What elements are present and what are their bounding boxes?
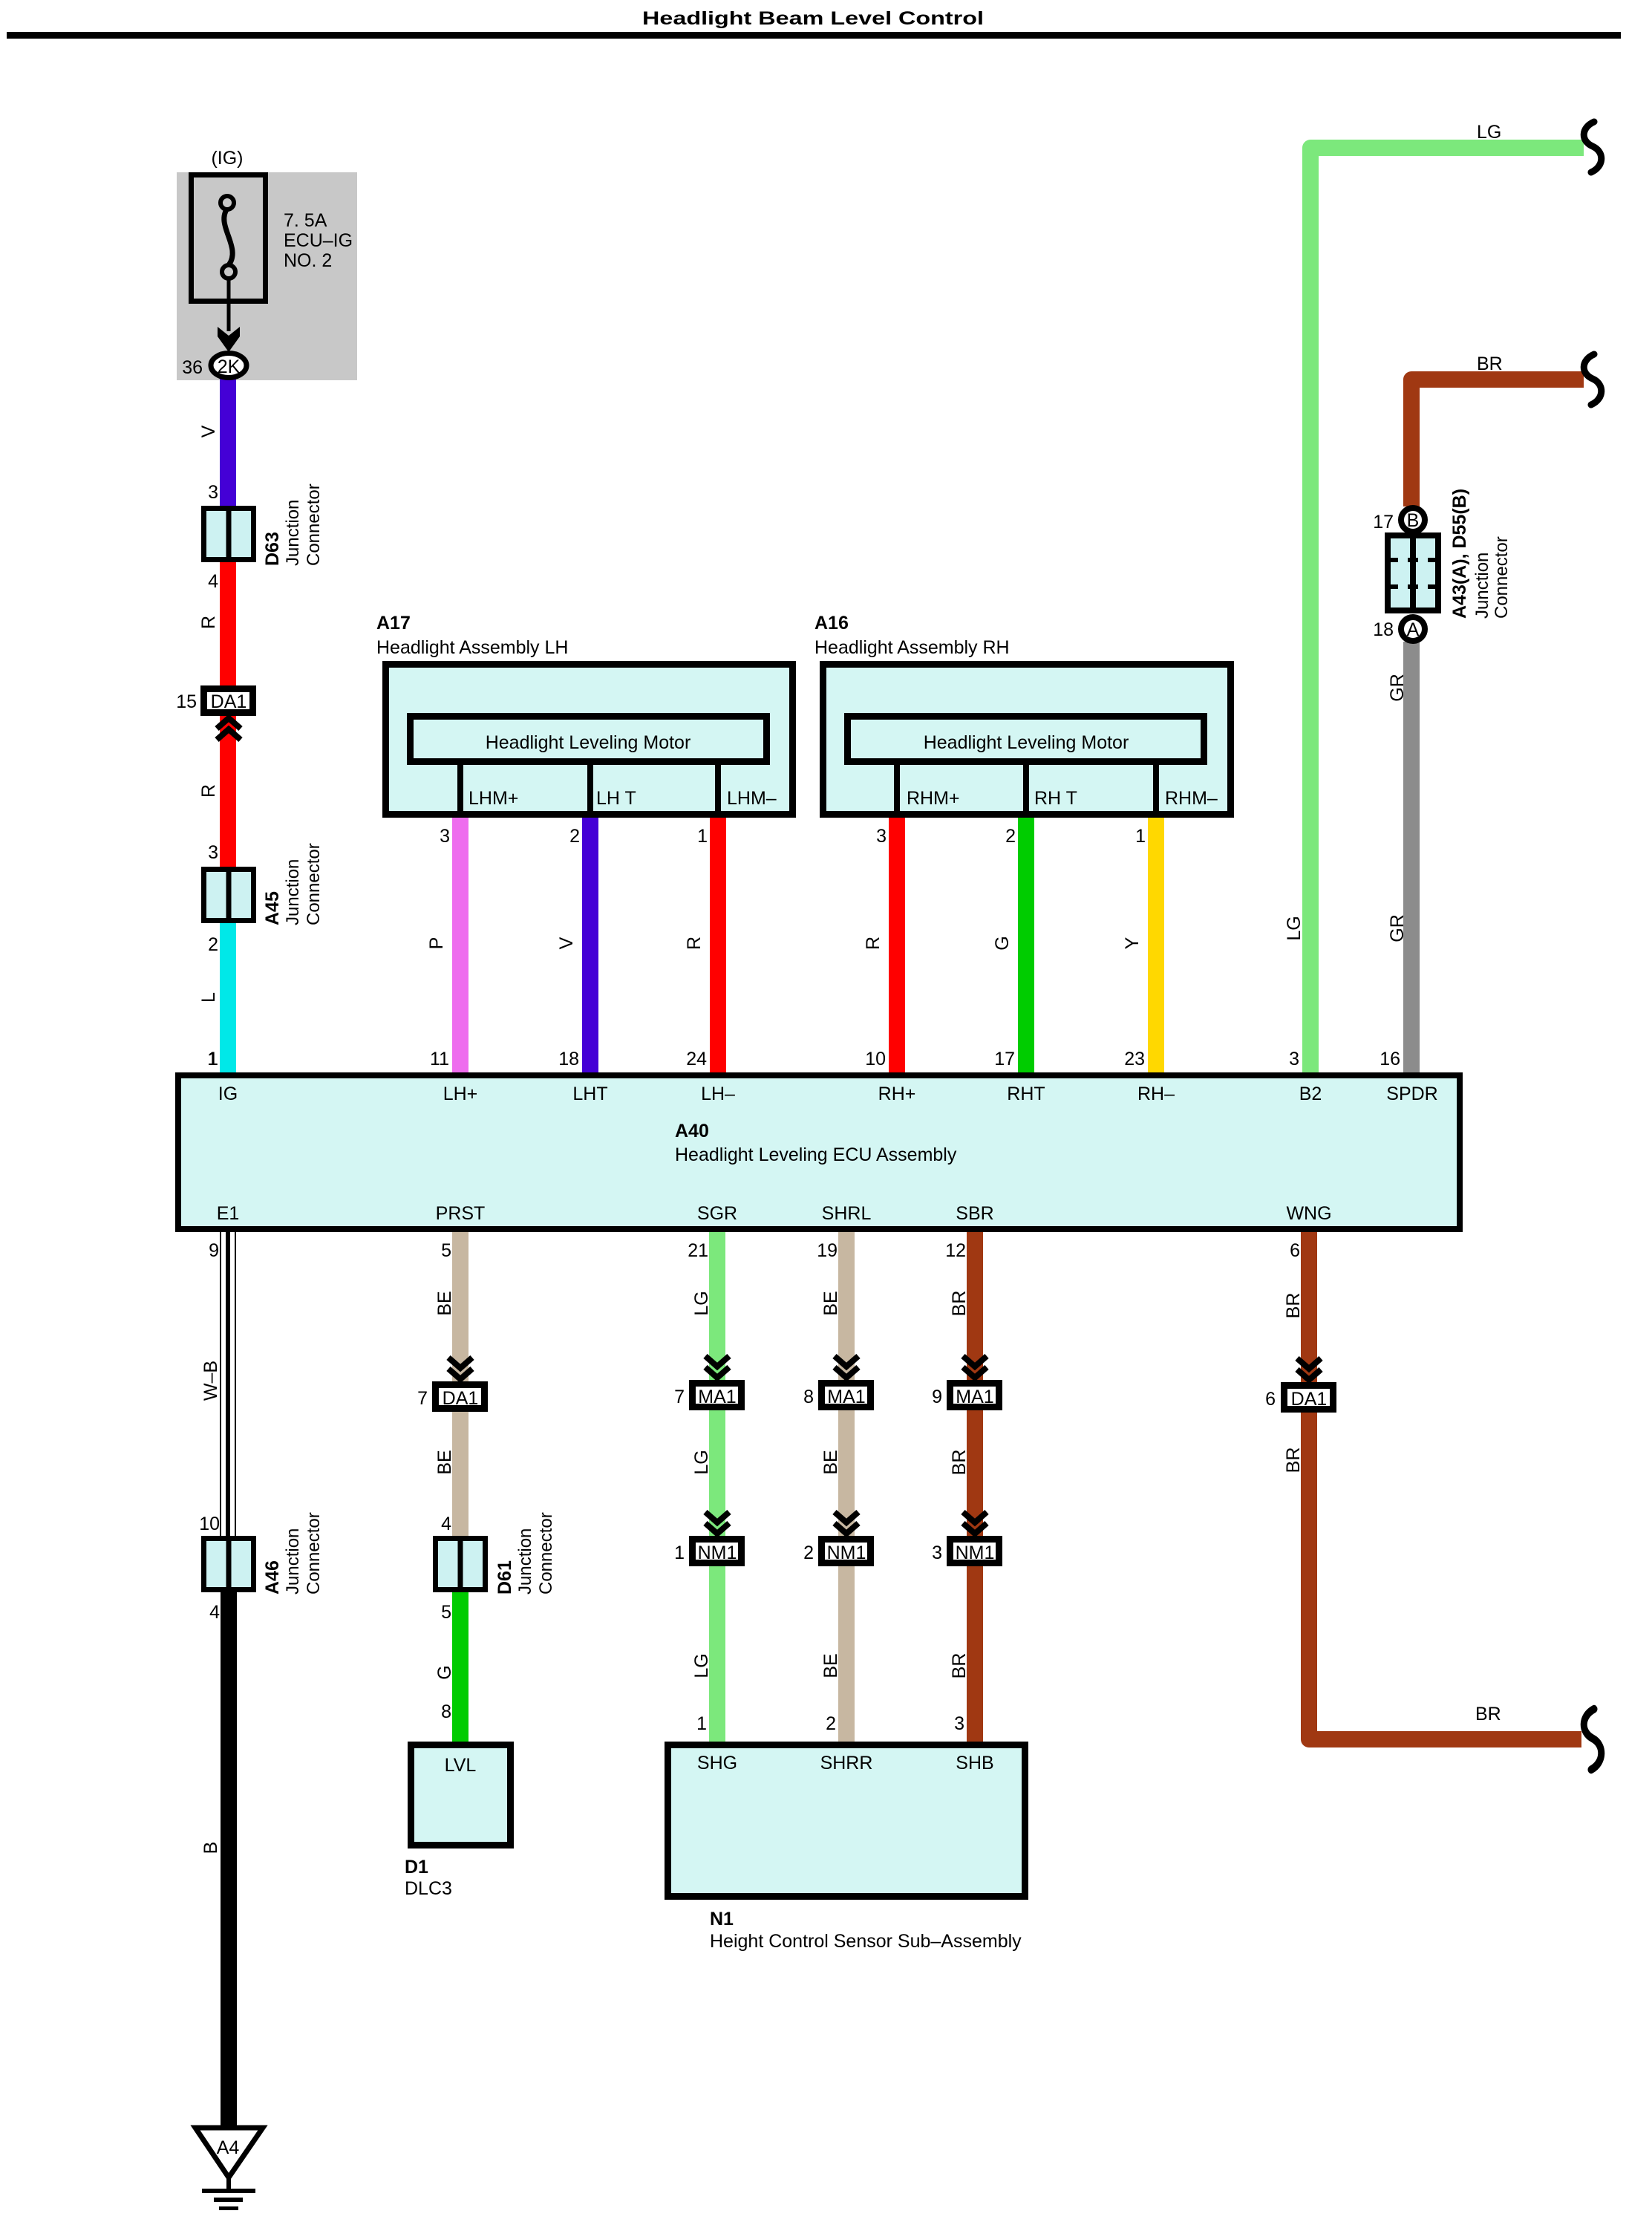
svg-text:1: 1 xyxy=(696,1713,707,1734)
svg-text:R: R xyxy=(198,616,219,629)
svg-text:DA1: DA1 xyxy=(1291,1389,1328,1410)
svg-text:A40: A40 xyxy=(675,1121,709,1141)
svg-text:3: 3 xyxy=(440,826,450,847)
svg-text:Junction: Junction xyxy=(1472,553,1492,619)
svg-text:LH+: LH+ xyxy=(443,1084,478,1104)
svg-text:8: 8 xyxy=(441,1701,451,1722)
svg-text:G: G xyxy=(992,936,1013,950)
svg-text:DA1: DA1 xyxy=(443,1388,479,1409)
svg-text:6: 6 xyxy=(1265,1389,1276,1410)
svg-text:Connector: Connector xyxy=(304,483,324,566)
svg-text:D63: D63 xyxy=(262,532,283,566)
svg-text:MA1: MA1 xyxy=(827,1387,865,1407)
svg-text:2: 2 xyxy=(208,934,218,955)
svg-text:LH–: LH– xyxy=(701,1084,735,1104)
svg-text:BR: BR xyxy=(1283,1447,1304,1473)
svg-text:BE: BE xyxy=(434,1291,455,1315)
svg-text:1: 1 xyxy=(697,826,708,847)
svg-text:SHB: SHB xyxy=(956,1753,993,1773)
svg-text:Headlight Leveling Motor: Headlight Leveling Motor xyxy=(486,732,691,753)
svg-text:8: 8 xyxy=(803,1387,814,1407)
svg-text:2: 2 xyxy=(803,1543,814,1563)
svg-text:Headlight Beam Level Control: Headlight Beam Level Control xyxy=(642,8,984,29)
svg-text:G: G xyxy=(434,1665,455,1679)
svg-text:16: 16 xyxy=(1380,1049,1400,1069)
svg-text:10: 10 xyxy=(199,1514,220,1534)
svg-text:LHT: LHT xyxy=(572,1084,607,1104)
svg-text:SBR: SBR xyxy=(956,1203,993,1224)
svg-text:A43(A), D55(B): A43(A), D55(B) xyxy=(1449,489,1470,619)
svg-text:4: 4 xyxy=(208,571,218,592)
svg-text:BR: BR xyxy=(1477,354,1503,374)
svg-text:Headlight Leveling Motor: Headlight Leveling Motor xyxy=(924,732,1129,753)
svg-text:A16: A16 xyxy=(814,613,849,633)
svg-text:9: 9 xyxy=(209,1240,219,1261)
svg-text:19: 19 xyxy=(817,1240,838,1261)
svg-text:BE: BE xyxy=(820,1450,841,1474)
svg-text:DLC3: DLC3 xyxy=(405,1878,452,1899)
svg-text:21: 21 xyxy=(688,1240,708,1261)
svg-text:N1: N1 xyxy=(710,1909,734,1929)
svg-text:24: 24 xyxy=(686,1049,707,1069)
svg-text:SHG: SHG xyxy=(697,1753,737,1773)
svg-text:4: 4 xyxy=(209,1602,220,1623)
svg-text:R: R xyxy=(684,937,705,950)
svg-text:7: 7 xyxy=(674,1387,685,1407)
svg-text:A46: A46 xyxy=(262,1560,283,1595)
svg-text:E1: E1 xyxy=(217,1203,240,1224)
svg-text:ECU–IG: ECU–IG xyxy=(284,230,353,251)
svg-text:1: 1 xyxy=(207,1049,218,1069)
svg-text:R: R xyxy=(863,937,884,950)
svg-text:BR: BR xyxy=(949,1291,970,1317)
svg-text:W–B: W–B xyxy=(200,1361,221,1401)
svg-text:LHM–: LHM– xyxy=(727,788,777,809)
svg-text:12: 12 xyxy=(945,1240,966,1261)
svg-text:NM1: NM1 xyxy=(827,1543,866,1563)
svg-text:3: 3 xyxy=(932,1543,942,1563)
svg-text:A4: A4 xyxy=(217,2137,240,2158)
svg-text:2: 2 xyxy=(826,1713,836,1734)
svg-text:LG: LG xyxy=(1477,122,1501,143)
svg-text:D61: D61 xyxy=(494,1560,515,1595)
svg-text:LVL: LVL xyxy=(445,1755,477,1776)
svg-text:V: V xyxy=(556,937,577,949)
svg-text:17: 17 xyxy=(1373,512,1394,532)
svg-text:Junction: Junction xyxy=(283,1528,303,1595)
svg-text:15: 15 xyxy=(176,691,197,712)
svg-text:3: 3 xyxy=(954,1713,964,1734)
svg-text:B: B xyxy=(1407,510,1420,531)
svg-text:11: 11 xyxy=(430,1049,449,1069)
svg-text:Connector: Connector xyxy=(304,843,324,925)
svg-text:3: 3 xyxy=(208,842,218,863)
svg-text:4: 4 xyxy=(441,1514,451,1534)
svg-text:Headlight Assembly LH: Headlight Assembly LH xyxy=(376,637,568,658)
svg-text:RHM–: RHM– xyxy=(1165,788,1218,809)
svg-text:NO. 2: NO. 2 xyxy=(284,250,332,271)
svg-text:9: 9 xyxy=(932,1387,942,1407)
svg-text:BR: BR xyxy=(949,1450,970,1476)
svg-text:NM1: NM1 xyxy=(698,1543,737,1563)
svg-text:BR: BR xyxy=(1475,1704,1501,1724)
svg-text:R: R xyxy=(198,784,219,798)
svg-text:SHRR: SHRR xyxy=(820,1753,873,1773)
svg-text:SPDR: SPDR xyxy=(1386,1084,1437,1104)
svg-text:Connector: Connector xyxy=(536,1512,556,1595)
svg-text:NM1: NM1 xyxy=(956,1543,995,1563)
svg-text:Connector: Connector xyxy=(1492,536,1512,619)
svg-text:5: 5 xyxy=(441,1602,451,1623)
svg-text:2: 2 xyxy=(1005,826,1016,847)
svg-text:Headlight Leveling ECU Assembl: Headlight Leveling ECU Assembly xyxy=(675,1144,957,1165)
svg-text:Y: Y xyxy=(1122,937,1143,949)
svg-text:LHM+: LHM+ xyxy=(468,788,518,809)
svg-text:SHRL: SHRL xyxy=(822,1203,872,1224)
svg-text:1: 1 xyxy=(674,1543,685,1563)
svg-text:Height Control Sensor Sub–Asse: Height Control Sensor Sub–Assembly xyxy=(710,1931,1022,1952)
svg-text:LG: LG xyxy=(1284,916,1305,940)
svg-text:B2: B2 xyxy=(1299,1084,1322,1104)
svg-text:Junction: Junction xyxy=(283,500,303,566)
svg-text:18: 18 xyxy=(558,1049,579,1069)
svg-text:A45: A45 xyxy=(262,891,283,925)
svg-text:BE: BE xyxy=(434,1450,455,1474)
svg-text:17: 17 xyxy=(994,1049,1015,1069)
svg-text:PRST: PRST xyxy=(436,1203,486,1224)
svg-text:A17: A17 xyxy=(376,613,411,633)
svg-text:RHT: RHT xyxy=(1007,1084,1045,1104)
svg-text:Junction: Junction xyxy=(283,859,303,925)
svg-text:BR: BR xyxy=(1283,1293,1304,1319)
svg-text:MA1: MA1 xyxy=(698,1387,736,1407)
svg-text:RH+: RH+ xyxy=(878,1084,916,1104)
svg-text:V: V xyxy=(198,425,219,437)
svg-text:IG: IG xyxy=(218,1084,238,1104)
svg-text:BE: BE xyxy=(820,1291,841,1315)
svg-text:LG: LG xyxy=(691,1653,712,1678)
svg-text:RH–: RH– xyxy=(1137,1084,1175,1104)
svg-text:GR: GR xyxy=(1387,674,1408,702)
svg-text:LG: LG xyxy=(691,1291,712,1315)
svg-text:10: 10 xyxy=(865,1049,886,1069)
svg-text:P: P xyxy=(426,937,447,950)
svg-text:3: 3 xyxy=(1289,1049,1299,1069)
svg-text:18: 18 xyxy=(1373,619,1394,640)
svg-text:1: 1 xyxy=(1135,826,1146,847)
svg-text:WNG: WNG xyxy=(1286,1203,1331,1224)
svg-text:7. 5A: 7. 5A xyxy=(284,210,327,231)
svg-text:7: 7 xyxy=(417,1388,428,1409)
svg-text:D1: D1 xyxy=(405,1857,428,1877)
svg-text:LG: LG xyxy=(691,1450,712,1474)
svg-text:Connector: Connector xyxy=(304,1512,324,1595)
svg-text:A: A xyxy=(1407,619,1420,640)
svg-text:23: 23 xyxy=(1124,1049,1145,1069)
svg-text:B: B xyxy=(200,1842,221,1854)
svg-text:2K: 2K xyxy=(218,356,241,377)
svg-text:RHM+: RHM+ xyxy=(907,788,960,809)
svg-text:GR: GR xyxy=(1387,914,1408,942)
svg-text:MA1: MA1 xyxy=(956,1387,993,1407)
svg-text:BE: BE xyxy=(820,1653,841,1678)
svg-text:Headlight Assembly RH: Headlight Assembly RH xyxy=(814,637,1010,658)
svg-text:3: 3 xyxy=(876,826,887,847)
svg-text:6: 6 xyxy=(1290,1240,1300,1261)
svg-text:5: 5 xyxy=(441,1240,451,1261)
svg-text:36: 36 xyxy=(182,357,203,378)
svg-text:DA1: DA1 xyxy=(211,691,247,712)
svg-text:RH T: RH T xyxy=(1034,788,1077,809)
svg-text:Junction: Junction xyxy=(515,1528,535,1595)
svg-text:(IG): (IG) xyxy=(211,148,243,169)
svg-text:BR: BR xyxy=(949,1653,970,1679)
svg-text:3: 3 xyxy=(208,482,218,503)
svg-text:LH T: LH T xyxy=(596,788,636,809)
svg-text:SGR: SGR xyxy=(697,1203,737,1224)
svg-text:2: 2 xyxy=(569,826,580,847)
svg-text:L: L xyxy=(198,992,219,1003)
